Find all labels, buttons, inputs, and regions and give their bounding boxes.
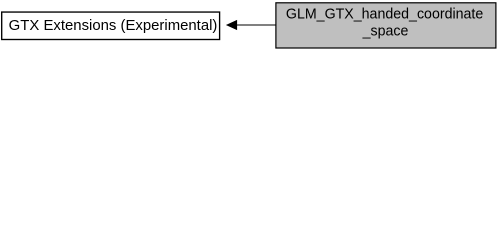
edge arrowhead	[227, 20, 237, 29]
svg-text:GTX Extensions (Experimental): GTX Extensions (Experimental)	[9, 18, 218, 34]
svg-text:_space: _space	[362, 24, 409, 40]
node box: GTX Extensions (Experimental)	[2, 12, 220, 39]
svg-text:GLM_GTX_handed_coordinate: GLM_GTX_handed_coordinate	[286, 7, 483, 23]
node box: GLM_GTX_handed_coordinate_space (current, grey)	[276, 3, 496, 48]
wire: edge line	[237, 24, 276, 26]
